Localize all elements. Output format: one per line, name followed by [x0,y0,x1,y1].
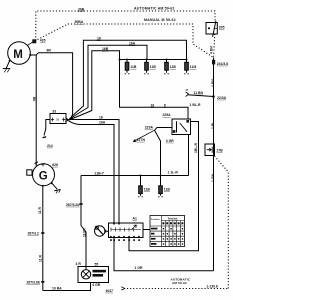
terminal B+ on G top [41,163,44,166]
wire U4 fan to relay 229A feed [69,51,188,120]
svg-text:A1: A1 [133,217,137,221]
svg-text:4 R: 4 R [76,262,82,266]
switch S1 (top right, clutch/gear position) [206,21,217,37]
svg-text:1 GN: 1 GN [211,174,215,182]
motor M1 starter [8,42,31,65]
fuse 1 [125,59,130,74]
svg-text:Position: Position [151,218,160,221]
pin dots ignition bottom [110,236,140,238]
svg-text:435: 435 [40,39,46,43]
connector 241/3.8 (tick) [212,60,215,65]
svg-text:MANUAL M 59-62: MANUAL M 59-62 [144,18,176,22]
svg-text:AM 59-62: AM 59-62 [172,281,187,285]
wire W1 outer loop (1GR) [114,238,214,271]
relay 229A overdrive [172,119,191,135]
connector arrow (bottom ref) [121,287,125,290]
svg-text:33: 33 [52,110,56,114]
wire fuse bus [120,59,187,61]
svg-text:Terminal: Terminal [168,217,178,220]
svg-text:16A: 16A [129,42,136,46]
svg-text:4 GR: 4 GR [92,283,100,287]
generator G [33,164,55,186]
pin dots ignition top [113,223,115,225]
svg-text:4 BN: 4 BN [211,79,215,87]
ground at G [51,182,61,193]
wire U3 fan to fuse bus (middle bracket) [69,45,147,120]
svg-text:267/3.8b: 267/3.8b [27,281,40,285]
svg-text:M: M [13,49,23,61]
svg-text:10 RA: 10 RA [52,287,62,291]
svg-text:10: 10 [56,119,59,122]
fuse 2 [144,59,149,74]
svg-text:11B: 11B [130,65,137,69]
svg-text:6: 6 [164,103,166,107]
wire 11 B-Y net (horizontal) [81,175,189,177]
terminal 50 on M (top, black square) [28,39,37,45]
svg-text:G: G [39,171,48,183]
svg-text:AUTOMATIC AM 59-62: AUTOMATIC AM 59-62 [134,6,175,10]
svg-text:11B: 11B [144,187,151,191]
diode/connector 278 [205,144,215,156]
svg-text:11 BN: 11 BN [194,91,204,95]
svg-text:6R: 6R [47,49,52,53]
wire H1 fan to ignition switch feed 1 [69,120,119,224]
wire relay left to split [155,128,173,131]
svg-text:HEATER: HEATER [93,274,102,277]
wire 6R from M to fan junction [30,53,72,120]
svg-text:16B: 16B [102,47,109,51]
pin numbers ignition bottom [110,239,140,241]
svg-text:1BL-R: 1BL-R [194,142,198,153]
brush housing on G left [27,170,32,175]
svg-text:4 BN: 4 BN [210,46,214,54]
wire H2 fan to ignition switch feed 2 [69,121,114,223]
svg-text:11B-Y: 11B-Y [95,171,105,175]
svg-text:4 GR: 4 GR [166,139,174,143]
fuse 6 [158,175,163,197]
svg-text:11GR: 11GR [83,228,87,237]
connector 267/3.2 tick [41,232,44,234]
connector 33 (10-pole) [50,114,66,124]
svg-text:22/3A: 22/3A [217,96,227,100]
wire relay bottom to 11 net [188,135,190,176]
table position/terminal [150,216,185,247]
svg-text:CARBURET: CARBURET [93,270,105,273]
ground at M (lower-left) [3,60,11,72]
svg-text:17: 17 [186,89,189,92]
wire heater feed (left chain) [81,176,86,270]
ignition switch contact box [109,223,144,238]
svg-text:267/3.2: 267/3.2 [28,232,39,236]
wire M to G (left vertical) [35,55,37,166]
fuse 3 [164,59,169,74]
wire U2 fan to fuse 4 (outer bracket) [69,40,187,120]
wire G bottom to bottom bus [42,185,44,187]
svg-text:11B: 11B [150,65,157,69]
connector 267/3.2b tick [79,203,82,205]
svg-text:4047: 4047 [106,289,114,293]
svg-text:626: 626 [52,163,58,167]
wire heater out to G bottom [43,283,91,291]
connector 267/3.8b tick [41,281,44,283]
node 22/3A junction [212,95,215,98]
svg-text:205: 205 [219,26,225,30]
svg-text:30BA: 30BA [75,20,84,24]
svg-text:11/8: 11/8 [190,65,197,69]
ignition switch key symbol [95,226,109,236]
svg-text:11 R: 11 R [38,206,42,214]
terminal on M right [29,54,31,56]
wire split to fuse 5 branch [155,130,161,175]
svg-text:267/3.2b: 267/3.2b [66,203,79,207]
svg-text:11B: 11B [170,65,177,69]
wire branch 11BN [187,95,213,97]
svg-text:16: 16 [99,116,103,120]
svg-text:229A: 229A [145,125,154,129]
fuse 4 [184,59,189,74]
wire dotted MANUAL bus 30BA [38,24,214,58]
svg-text:229A: 229A [163,113,172,117]
svg-text:1 BL: 1 BL [211,122,215,129]
fuse 5 [138,175,143,197]
svg-text:241/3.8: 241/3.8 [217,62,228,66]
svg-text:6R: 6R [33,96,37,101]
node fan junction (arrow into 33) [65,118,68,122]
wire right column 4BN/1BL/1GN [213,58,215,271]
terminal D+ on G (M wire end) [35,162,39,166]
wire stub to connector 214 [44,120,50,136]
heater text lines [93,270,107,277]
svg-text:1 BL-R: 1 BL-R [190,103,201,107]
svg-text:1-130.6: 1-130.6 [206,284,218,288]
svg-text:11 R: 11 R [38,254,42,262]
svg-text:1 1L-R: 1 1L-R [168,171,179,175]
svg-text:16: 16 [151,103,155,107]
svg-text:214: 214 [47,144,53,148]
svg-text:11B: 11B [164,187,171,191]
svg-text:55: 55 [95,262,99,266]
wire relay right to W2 loop [129,122,199,251]
svg-text:16: 16 [97,37,101,41]
svg-text:27B: 27B [217,149,224,153]
svg-text:30B: 30B [78,8,85,12]
wire dotted AUTOMATIC bus 30B [36,11,215,41]
svg-text:1 GR: 1 GR [135,266,143,270]
svg-text:16A: 16A [99,121,106,125]
wire dotted right side (to AM 59-62) [127,156,228,289]
svg-text:11TN: 11TN [137,138,146,142]
heater unit 55 (pre-heating) [78,267,109,283]
wire split to connector arrow 11TN [133,130,154,142]
wire table link [143,229,150,231]
wire dotted below S1 [214,34,215,57]
